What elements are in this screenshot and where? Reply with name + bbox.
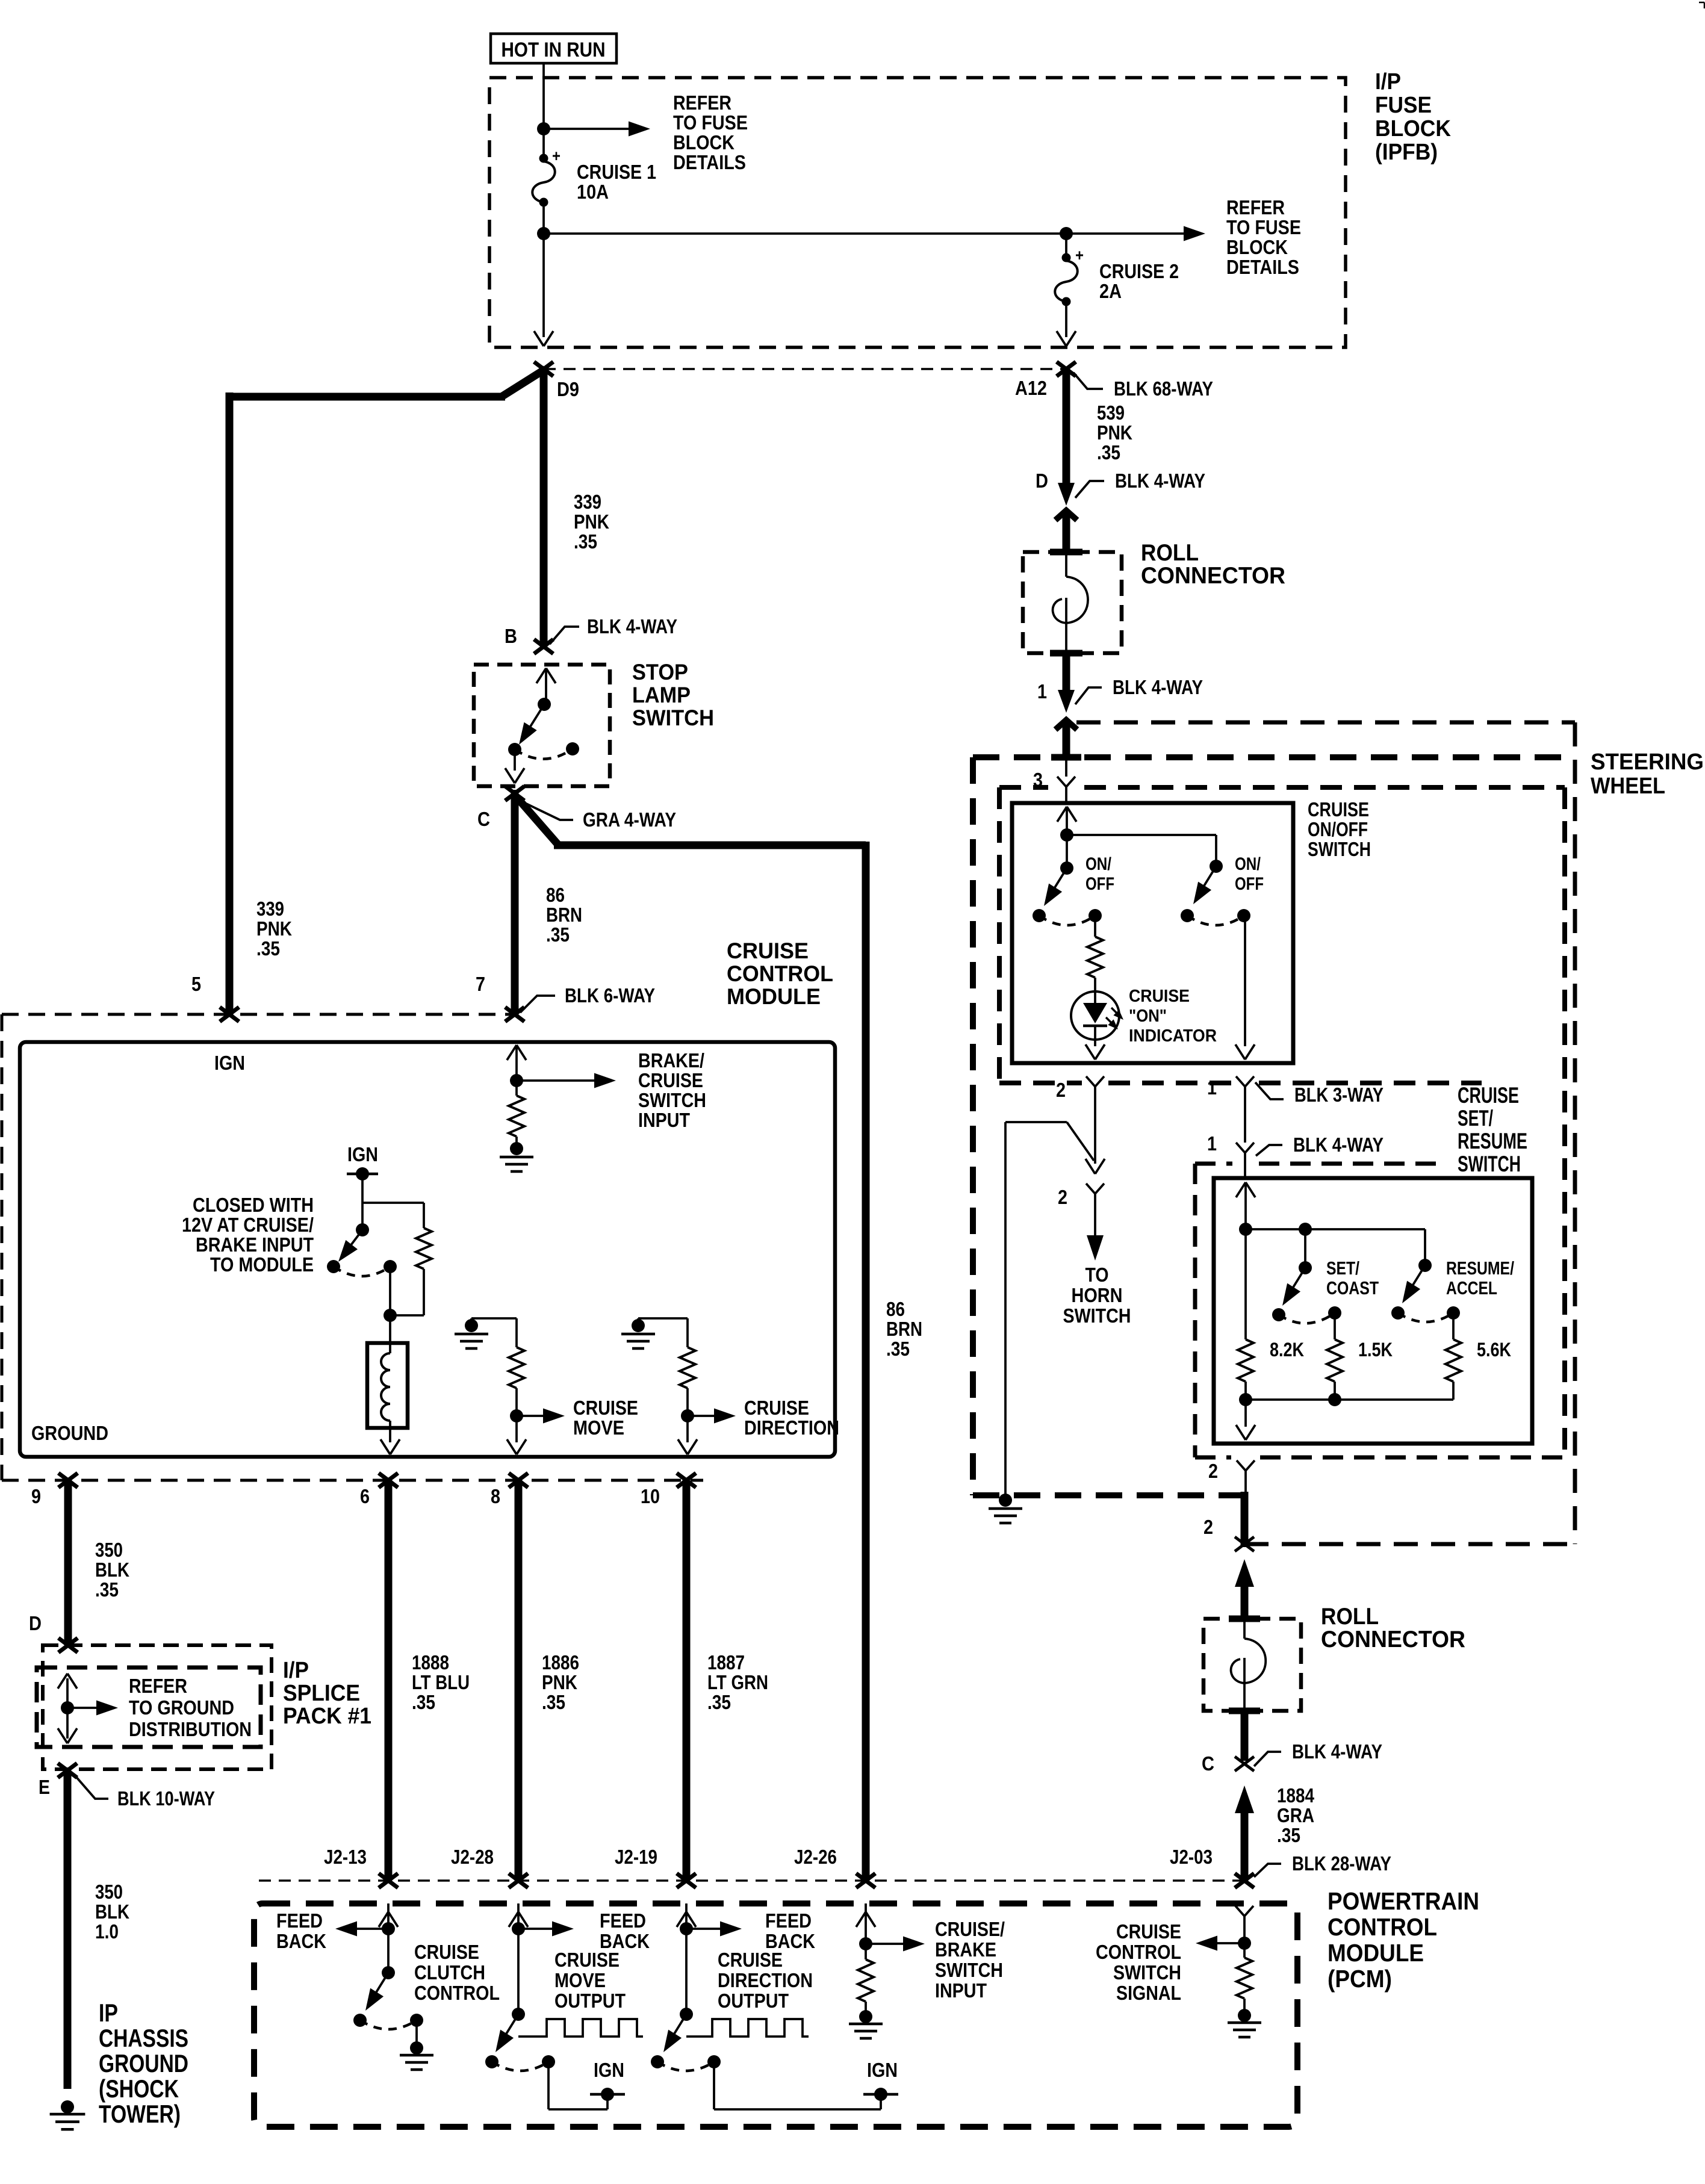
svg-text:FEED: FEED — [600, 1909, 646, 1932]
internal relay coil resistor — [423, 1203, 425, 1228]
roll connector 1 entry bar — [1050, 549, 1082, 556]
svg-text:IGN: IGN — [867, 2059, 898, 2081]
svg-text:BRN: BRN — [546, 904, 582, 926]
svg-text:MODULE: MODULE — [727, 984, 821, 1009]
cruise/brake input ground — [859, 2010, 872, 2023]
svg-text:C: C — [477, 808, 490, 830]
stop lamp switch contacts and throw arc — [508, 743, 521, 756]
PCM J2-28 entry terminal — [517, 1903, 520, 1929]
svg-text:RESUME: RESUME — [1458, 1129, 1527, 1153]
brake/cruise switch input branch arrow — [510, 1074, 523, 1087]
svg-text:1: 1 — [1037, 680, 1047, 703]
roll connector 2 pigtail — [1243, 1622, 1246, 1639]
svg-text:HOT IN RUN: HOT IN RUN — [502, 39, 606, 61]
pin 2 connector (set/resume) — [1237, 1460, 1246, 1471]
connector notch module pin 7 — [505, 1007, 524, 1022]
wire pin 2 down with horn branch — [1094, 1087, 1096, 1164]
svg-text:IGN: IGN — [594, 2059, 624, 2081]
resistor 8.2K — [1244, 1229, 1247, 1339]
svg-text:.35: .35 — [707, 1691, 731, 1713]
svg-text:DIRECTION: DIRECTION — [718, 1969, 813, 1991]
svg-text:.35: .35 — [412, 1691, 435, 1713]
wire 350 BLK 1.0 to chassis ground — [64, 1770, 72, 2089]
BLK 68-WAY connector label — [1073, 373, 1103, 389]
svg-text:.35: .35 — [95, 1578, 119, 1601]
svg-text:SWITCH: SWITCH — [632, 706, 714, 730]
svg-text:ROLL: ROLL — [1141, 540, 1199, 566]
connector notch at C — [505, 786, 524, 801]
cruise clutch feedback arrow — [382, 1922, 395, 1935]
svg-text:CRUISE: CRUISE — [1458, 1083, 1519, 1108]
I/P fuse block (IPFB) dashed boundary — [489, 78, 1346, 347]
set/resume entry terminal — [1236, 1182, 1246, 1197]
svg-text:RESUME/: RESUME/ — [1446, 1258, 1514, 1279]
svg-text:D9: D9 — [557, 378, 579, 400]
wire bar crossing steering boundary — [1051, 754, 1081, 761]
svg-text:CRUISE 1: CRUISE 1 — [577, 161, 656, 183]
set/coast contacts and arc — [1272, 1308, 1285, 1321]
brake/cruise switch input terminal arrow — [507, 1045, 517, 1060]
svg-text:D: D — [29, 1612, 42, 1634]
pin 1 connector BLK 3-WAY — [1236, 1076, 1245, 1087]
wire 86 BRN C to module pin 7 — [511, 790, 519, 1016]
svg-text:BLOCK: BLOCK — [1226, 236, 1288, 258]
cruise/brake input resistor — [865, 1944, 867, 1959]
cruise direction ground reference — [638, 1317, 688, 1320]
svg-text:1887: 1887 — [707, 1651, 745, 1674]
steering wheel chassis ground — [999, 1494, 1012, 1507]
I/P splice pack outer dashed box — [43, 1645, 272, 1769]
connector notch at steering exit — [1235, 1537, 1254, 1551]
connector arrow at D (male) — [1058, 483, 1075, 506]
svg-text:A12: A12 — [1015, 377, 1047, 399]
wire HOT IN RUN feed to fuse CRUISE 1 — [542, 63, 545, 158]
svg-text:BLK 4-WAY: BLK 4-WAY — [587, 615, 677, 638]
svg-text:IGN: IGN — [214, 1052, 245, 1074]
on/off switch 1 movable contact — [1060, 861, 1073, 875]
connector notch at splice pack E — [58, 1763, 77, 1778]
svg-text:LT BLU: LT BLU — [412, 1671, 470, 1693]
svg-text:BRAKE/: BRAKE/ — [638, 1049, 704, 1072]
svg-text:(IPFB): (IPFB) — [1375, 140, 1438, 165]
svg-text:BACK: BACK — [276, 1930, 326, 1952]
cruise move feedback arrow — [512, 1922, 525, 1935]
svg-text:ACCEL: ACCEL — [1446, 1277, 1497, 1298]
svg-text:2: 2 — [1058, 1186, 1067, 1208]
switch assembly inner dashed box bottom — [999, 1081, 1082, 1085]
svg-text:I/P: I/P — [1375, 69, 1401, 95]
resistor 5.6K — [1452, 1313, 1455, 1339]
cruise direction feedback arrow — [680, 1922, 693, 1935]
svg-text:IP: IP — [99, 1999, 118, 2027]
svg-text:COAST: COAST — [1326, 1277, 1379, 1298]
svg-text:OFF: OFF — [1085, 874, 1114, 894]
svg-text:5: 5 — [191, 973, 201, 995]
svg-text:.35: .35 — [542, 1691, 565, 1713]
wire into roll connector — [1063, 513, 1070, 552]
pin 1 connector BLK 4-WAY (set/resume) — [1236, 1143, 1245, 1153]
connector notches at PCM J2 pins — [379, 1873, 398, 1888]
svg-text:POWERTRAIN: POWERTRAIN — [1328, 1887, 1479, 1915]
svg-text:SWITCH: SWITCH — [638, 1089, 706, 1111]
svg-text:9: 9 — [31, 1485, 41, 1507]
stop lamp switch dashed box — [474, 665, 610, 786]
on/off switch common node — [1060, 828, 1073, 842]
connector chevron below D (female) — [1055, 510, 1077, 520]
svg-text:BRAKE INPUT: BRAKE INPUT — [196, 1233, 314, 1256]
svg-text:LT GRN: LT GRN — [707, 1671, 768, 1693]
svg-text:TO: TO — [1085, 1264, 1109, 1286]
GRA 4-WAY label at C — [525, 803, 573, 820]
svg-text:MOVE: MOVE — [554, 1969, 606, 1991]
svg-text:CONNECTOR: CONNECTOR — [1141, 563, 1285, 589]
svg-text:PNK: PNK — [574, 510, 609, 533]
svg-text:CRUISE: CRUISE — [1116, 1920, 1181, 1943]
svg-text:C: C — [1202, 1752, 1214, 1775]
svg-text:FEED: FEED — [276, 1909, 323, 1932]
switch signal ground — [1238, 2009, 1251, 2022]
svg-text:BLOCK: BLOCK — [1375, 116, 1452, 141]
svg-text:1.5K: 1.5K — [1358, 1339, 1393, 1360]
set/resume bottom rail — [1239, 1393, 1252, 1406]
pin 3 connector — [1065, 760, 1067, 777]
stop lamp switch terminal arrow in — [536, 668, 546, 683]
cruise on indicator LED — [1071, 991, 1119, 1040]
svg-text:INPUT: INPUT — [935, 1979, 987, 2002]
wire 350 BLK pin 9 to splice pack — [64, 1480, 72, 1645]
svg-text:SET/: SET/ — [1326, 1258, 1359, 1279]
connector notch at C (PCM harness) — [1235, 1757, 1254, 1771]
cruise direction output switch — [685, 1929, 688, 2014]
svg-text:BLK 6-WAY: BLK 6-WAY — [565, 984, 655, 1007]
cruise move IGN reference — [547, 2062, 550, 2109]
svg-text:8: 8 — [491, 1485, 500, 1507]
svg-text:INPUT: INPUT — [638, 1109, 690, 1131]
cruise move output contacts and arc — [485, 2055, 498, 2068]
cruise move output arrow to pin 8 — [515, 1416, 518, 1442]
svg-text:2: 2 — [1203, 1516, 1213, 1538]
splice pack refer arrow — [61, 1701, 74, 1714]
svg-text:CONNECTOR: CONNECTOR — [1321, 1627, 1465, 1652]
wire fuse CRUISE 2 down to A12 — [1065, 234, 1067, 258]
svg-text:STOP: STOP — [632, 660, 688, 684]
svg-text:TO FUSE: TO FUSE — [1226, 216, 1301, 238]
svg-text:ON/OFF: ON/OFF — [1308, 818, 1368, 840]
PCM J2-13 entry terminal — [387, 1903, 390, 1929]
switch assembly inner dashed box — [999, 785, 1048, 790]
svg-text:1888: 1888 — [412, 1651, 449, 1674]
ground brake/cruise input — [510, 1142, 523, 1155]
svg-text:INDICATOR: INDICATOR — [1129, 1026, 1217, 1046]
resume/accel movable contact — [1418, 1259, 1432, 1272]
svg-text:10: 10 — [641, 1485, 660, 1507]
svg-text:CLUTCH: CLUTCH — [414, 1961, 485, 1984]
svg-text:CRUISE: CRUISE — [744, 1397, 809, 1419]
svg-text:SWITCH: SWITCH — [1063, 1305, 1131, 1327]
powertrain control module dashed box — [254, 1903, 1297, 2127]
svg-text:350: 350 — [95, 1881, 123, 1903]
svg-text:10A: 10A — [577, 181, 609, 203]
on/off switch 2 contacts and arc — [1181, 909, 1194, 922]
cruise on/off switch body box — [1012, 803, 1293, 1063]
wire 339 PNK D9 branch down to stop lamp switch B — [540, 369, 548, 647]
svg-text:FEED: FEED — [765, 1909, 812, 1932]
cruise clutch ground — [415, 2020, 418, 2046]
stop lamp switch output wire and arrow — [514, 749, 516, 771]
svg-text:1.0: 1.0 — [95, 1920, 119, 1943]
svg-text:BLOCK: BLOCK — [673, 131, 734, 154]
svg-text:7: 7 — [476, 973, 485, 995]
cruise clutch contacts and arc — [353, 2014, 367, 2027]
connector notch at D9 — [534, 362, 553, 376]
svg-text:CONTROL: CONTROL — [1096, 1941, 1181, 1963]
svg-text:8.2K: 8.2K — [1270, 1339, 1304, 1360]
svg-text:DISTRIBUTION: DISTRIBUTION — [129, 1718, 252, 1740]
wire into steering wheel — [1063, 722, 1070, 760]
svg-text:CRUISE: CRUISE — [718, 1949, 783, 1971]
svg-text:CONTROL: CONTROL — [727, 961, 833, 986]
steering wheel dashed boundary upper right — [1076, 721, 1575, 725]
svg-text:SWITCH: SWITCH — [1308, 838, 1371, 860]
PCM J2-03 entry terminal — [1235, 1906, 1244, 1916]
svg-text:2: 2 — [1056, 1079, 1066, 1101]
cruise direction sense resistor — [686, 1318, 689, 1347]
svg-text:CHASSIS: CHASSIS — [99, 2024, 188, 2052]
arrow refer to fuse block details (left) — [544, 128, 633, 130]
svg-text:BLK 3-WAY: BLK 3-WAY — [1294, 1084, 1384, 1106]
connector arrow up at C — [1235, 1785, 1254, 1813]
svg-text:J2-28: J2-28 — [451, 1846, 494, 1868]
roll connector 1 pigtail — [1065, 555, 1067, 577]
svg-text:1: 1 — [1207, 1132, 1217, 1155]
roll connector 2 entry bar — [1229, 1616, 1260, 1622]
svg-text:CRUISE 2: CRUISE 2 — [1099, 260, 1179, 282]
roll connector 1 exit bar — [1050, 650, 1082, 657]
svg-text:HORN: HORN — [1072, 1284, 1123, 1306]
connector arrow up to roll connector 2 — [1235, 1559, 1254, 1587]
switch signal pull-up resistor — [1243, 1943, 1246, 1958]
svg-text:TO GROUND: TO GROUND — [129, 1696, 234, 1719]
roll connector 1 dashed box — [1023, 552, 1122, 653]
on/off switch output arrow to pin 1 — [1244, 916, 1246, 1046]
svg-text:GROUND: GROUND — [99, 2049, 188, 2077]
svg-text:(SHOCK: (SHOCK — [99, 2074, 179, 2103]
svg-text:.35: .35 — [256, 937, 280, 960]
cruise control switch signal arrow — [1238, 1937, 1251, 1950]
svg-text:GROUND: GROUND — [31, 1422, 108, 1444]
wire 1888 LT BLU pin 6 to J2-13 — [385, 1480, 393, 1881]
svg-text:SWITCH: SWITCH — [1458, 1152, 1521, 1176]
arrow refer to fuse block details (right) — [1184, 226, 1205, 241]
page corner mark — [1699, 2, 1704, 4]
svg-text:SIGNAL: SIGNAL — [1116, 1982, 1181, 2004]
connector notches module pins 9 6 8 10 — [58, 1473, 78, 1488]
pin 2 connector — [1086, 1076, 1095, 1087]
svg-text:B: B — [505, 625, 517, 647]
svg-text:+: + — [552, 147, 561, 165]
svg-text:DETAILS: DETAILS — [673, 151, 746, 173]
IP chassis ground symbol — [61, 2100, 74, 2114]
svg-text:CRUISE/: CRUISE/ — [935, 1918, 1005, 1940]
svg-text:2A: 2A — [1099, 280, 1122, 302]
svg-text:BLK 28-WAY: BLK 28-WAY — [1292, 1852, 1391, 1875]
BLK 4-WAY label (set/resume) — [1256, 1145, 1282, 1156]
svg-text:BRAKE: BRAKE — [935, 1938, 996, 1961]
stop lamp switch movable contact — [538, 698, 551, 711]
svg-text:OFF: OFF — [1235, 874, 1264, 894]
cruise move branch arrow — [510, 1409, 523, 1422]
svg-text:CONTROL: CONTROL — [414, 1982, 500, 2004]
svg-text:.35: .35 — [1097, 441, 1120, 464]
svg-text:REFER: REFER — [129, 1675, 187, 1697]
cruise solenoid coil winding — [389, 1315, 391, 1353]
wire 86 BRN C to PCM J2-26 long run — [517, 797, 557, 844]
svg-text:(PCM): (PCM) — [1328, 1965, 1392, 1993]
svg-text:WHEEL: WHEEL — [1591, 774, 1665, 799]
cruise control module dashed boundary — [1, 1014, 4, 1480]
cruise direction output arrow to pin 10 — [686, 1416, 689, 1442]
connector notch at splice pack D — [58, 1638, 78, 1652]
svg-text:BLK 10-WAY: BLK 10-WAY — [117, 1787, 215, 1810]
svg-text:BLK 4-WAY: BLK 4-WAY — [1293, 1134, 1384, 1156]
BLK 4-WAY label at B — [550, 627, 579, 644]
cruise on indicator resistor — [1094, 916, 1096, 937]
BLK 6-WAY label at pin 7 — [520, 996, 555, 1013]
set/resume common rail — [1239, 1223, 1252, 1236]
svg-text:2: 2 — [1208, 1460, 1218, 1482]
wire 1886 PNK pin 8 to J2-28 — [515, 1480, 523, 1881]
svg-text:E: E — [39, 1776, 50, 1798]
svg-text:.35: .35 — [1277, 1824, 1300, 1846]
connector notch module pin 5 — [220, 1007, 239, 1022]
PCM connector face dashed line — [259, 1879, 1244, 1882]
indicator output arrow to pin 2 — [1094, 1040, 1096, 1046]
module internal IGN tap — [347, 1173, 378, 1176]
roll connector 2 dashed box — [1203, 1619, 1301, 1711]
svg-text:SPLICE: SPLICE — [283, 1681, 360, 1706]
cruise move square wave symbol — [518, 2019, 643, 2037]
internal relay switch (closed with 12V) — [362, 1202, 424, 1204]
resistor 1.5K — [1334, 1313, 1336, 1339]
svg-text:PNK: PNK — [542, 1671, 577, 1693]
BLK 4-WAY label at C (PCM harness) — [1254, 1752, 1281, 1766]
svg-text:TO MODULE: TO MODULE — [210, 1253, 314, 1276]
cruise direction IGN reference — [713, 2062, 715, 2109]
cruise clutch control switch — [387, 1929, 390, 1973]
svg-text:.35: .35 — [574, 530, 597, 553]
svg-text:86: 86 — [886, 1298, 905, 1320]
wire roll connector 1 to steering wheel — [1063, 653, 1070, 692]
cruise set/resume dashed box — [1195, 1162, 1232, 1166]
svg-text:IGN: IGN — [347, 1143, 378, 1165]
BLK 3-WAY label — [1255, 1082, 1284, 1099]
svg-text:ROLL: ROLL — [1321, 1604, 1379, 1630]
wire 539 PNK A12 to roll connector — [1063, 369, 1070, 486]
svg-text:DETAILS: DETAILS — [1226, 256, 1299, 278]
set/coast movable contact — [1299, 1261, 1312, 1274]
connector arrow pin 1 (male) — [1058, 690, 1075, 713]
fuse CRUISE 2 2A — [1062, 253, 1071, 262]
svg-text:339: 339 — [574, 491, 601, 513]
svg-text:J2-03: J2-03 — [1170, 1846, 1213, 1868]
svg-text:I/P: I/P — [283, 1658, 309, 1683]
svg-text:J2-26: J2-26 — [794, 1846, 837, 1868]
steering wheel dashed boundary left — [973, 754, 1048, 760]
I/P splice pack inner dashed box — [37, 1667, 261, 1747]
wire pin 1 to set/resume connector — [1244, 1087, 1246, 1143]
horn branch in-line connector — [1085, 1159, 1095, 1174]
resume/accel contacts and arc — [1391, 1306, 1405, 1320]
cruise move output switch — [517, 1929, 520, 2014]
svg-text:ON/: ON/ — [1235, 854, 1261, 874]
svg-text:GRA: GRA — [1277, 1804, 1314, 1826]
svg-text:MOVE: MOVE — [573, 1416, 624, 1439]
on/off switch 1 contacts and arc — [1033, 909, 1046, 922]
svg-text:350: 350 — [95, 1539, 123, 1561]
svg-text:CRUISE: CRUISE — [573, 1397, 638, 1419]
cruise solenoid coil box — [367, 1343, 408, 1428]
svg-text:GRA 4-WAY: GRA 4-WAY — [583, 808, 676, 831]
wire relay contact to solenoid — [389, 1267, 391, 1315]
svg-text:TO FUSE: TO FUSE — [673, 111, 748, 134]
svg-text:LAMP: LAMP — [632, 683, 691, 707]
wire to steering wheel ground — [1004, 1122, 1007, 1494]
BLK 4-WAY label at D — [1075, 481, 1104, 498]
BLK 4-WAY label at pin 1 — [1075, 687, 1102, 704]
svg-text:"ON": "ON" — [1129, 1007, 1167, 1026]
svg-text:OUTPUT: OUTPUT — [718, 1990, 789, 2012]
svg-text:CRUISE: CRUISE — [554, 1949, 620, 1971]
svg-text:86: 86 — [546, 884, 565, 906]
cruise move ground reference — [471, 1317, 517, 1320]
cruise direction square wave symbol — [686, 2019, 809, 2037]
wire 339 PNK branch to module pin 5 — [502, 369, 545, 397]
svg-text:PNK: PNK — [256, 917, 292, 940]
svg-text:STEERING: STEERING — [1591, 749, 1704, 775]
svg-text:BLK 4-WAY: BLK 4-WAY — [1292, 1740, 1382, 1763]
svg-text:1886: 1886 — [542, 1651, 579, 1674]
svg-text:1: 1 — [1207, 1076, 1217, 1099]
cruise control module body box — [20, 1042, 835, 1457]
connector notch at B — [534, 639, 553, 654]
svg-text:.35: .35 — [886, 1338, 910, 1360]
svg-text:CLOSED WITH: CLOSED WITH — [193, 1194, 314, 1216]
cruise direction output contacts and arc — [651, 2055, 664, 2068]
svg-text:OUTPUT: OUTPUT — [554, 1990, 626, 2012]
svg-text:CRUISE: CRUISE — [414, 1941, 479, 1963]
svg-text:5.6K: 5.6K — [1477, 1339, 1511, 1360]
arrow into fuse block edge at D9 — [534, 331, 544, 346]
svg-text:PACK #1: PACK #1 — [283, 1704, 371, 1729]
BLK 28-WAY label — [1254, 1864, 1281, 1877]
set/resume switch body box — [1214, 1178, 1532, 1444]
svg-text:CRUISE: CRUISE — [1308, 798, 1369, 821]
svg-text:BLK 68-WAY: BLK 68-WAY — [1114, 377, 1213, 400]
resistor brake/cruise input pull-down — [515, 1081, 518, 1096]
connector notch at A12 — [1057, 362, 1076, 376]
cruise move sense resistor — [515, 1318, 518, 1347]
wire roll connector 2 to C connector — [1241, 1711, 1249, 1761]
fuse CRUISE 1 10A — [539, 154, 548, 163]
wire fuse CRUISE 1 to D9 and A12 — [542, 202, 545, 337]
on/off switch 2 movable contact — [1210, 860, 1223, 873]
svg-text:SWITCH: SWITCH — [1113, 1961, 1181, 1984]
svg-text:CRUISE: CRUISE — [1129, 987, 1190, 1006]
svg-text:CONTROL: CONTROL — [1328, 1913, 1437, 1941]
roll connector 2 exit bar — [1229, 1708, 1260, 1714]
wire 1887 LT GRN pin 10 to J2-19 — [683, 1480, 691, 1881]
solenoid output arrow to pin 6 — [380, 1439, 390, 1454]
